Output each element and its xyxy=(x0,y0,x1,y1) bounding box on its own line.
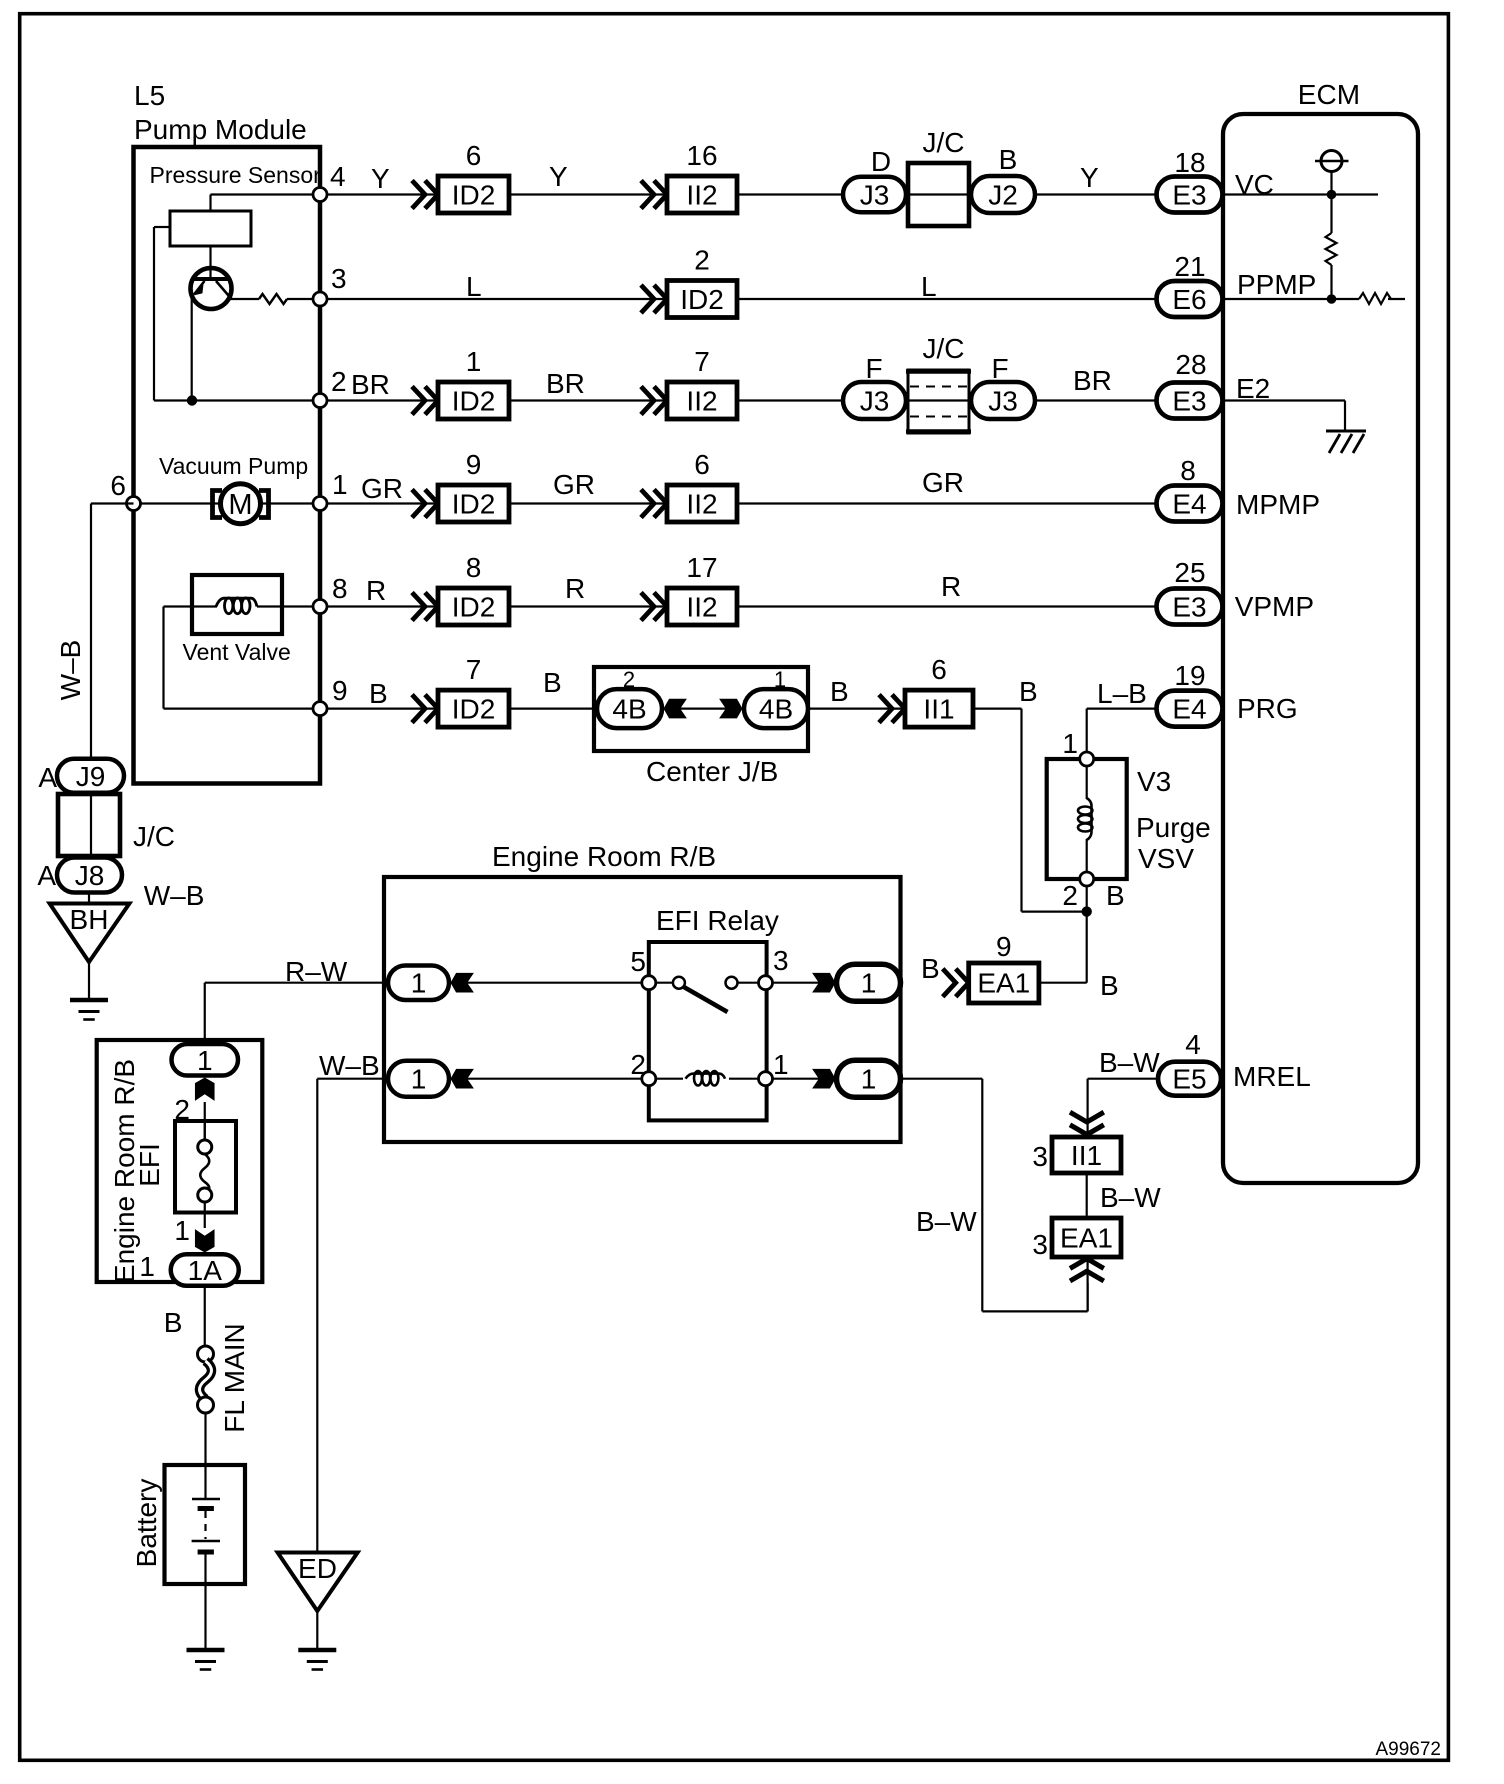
wire: junction down to EA1 output xyxy=(1086,912,1088,983)
svg-text:D: D xyxy=(871,146,891,177)
svg-text:MPMP: MPMP xyxy=(1236,489,1320,520)
svg-text:B–W: B–W xyxy=(916,1206,977,1237)
wire: pin6 W-B to J9 xyxy=(91,502,134,504)
ECM connector E5 pin 4 xyxy=(1158,1062,1221,1096)
connector II2 pin16 xyxy=(641,181,654,209)
svg-text:E2: E2 xyxy=(1236,373,1270,404)
svg-text:8: 8 xyxy=(332,573,348,604)
wire: pin8 R to ECM VPMP xyxy=(320,605,1157,607)
Center J/B box xyxy=(594,667,808,751)
svg-text:1A: 1A xyxy=(188,1255,223,1286)
EFI fuse xyxy=(175,1121,236,1213)
svg-text:Pressure Sensor: Pressure Sensor xyxy=(150,162,322,188)
svg-text:J2: J2 xyxy=(988,180,1018,211)
svg-text:B: B xyxy=(1100,970,1119,1001)
wire: pin3 L to ECM PPMP xyxy=(320,298,1157,300)
svg-text:1: 1 xyxy=(411,968,427,999)
arrow right (into 4B) xyxy=(719,699,742,719)
arrow down xyxy=(195,1229,215,1252)
purge VSV V3 box xyxy=(1047,759,1127,879)
svg-text:L: L xyxy=(466,271,482,302)
wire: pin2 BR to ECM E2 xyxy=(320,399,1157,401)
connector ID2 pin6 xyxy=(412,181,425,209)
internal wire E2 to ground xyxy=(1223,399,1345,401)
svg-text:ID2: ID2 xyxy=(452,694,496,725)
connector II2 pin6 xyxy=(641,490,654,518)
node: pump module pin 6 xyxy=(127,497,141,511)
svg-text:M: M xyxy=(228,489,252,521)
connector 1 (relay bottom-right) xyxy=(837,1060,901,1097)
node: VSV pin 1 xyxy=(1080,752,1094,766)
svg-text:R: R xyxy=(366,575,386,606)
wire: R-W row through relay xyxy=(384,982,679,984)
svg-text:6: 6 xyxy=(694,449,710,480)
svg-text:B: B xyxy=(1106,880,1125,911)
svg-text:L: L xyxy=(921,271,937,302)
svg-text:8: 8 xyxy=(466,552,482,583)
svg-text:Engine Room R/B: Engine Room R/B xyxy=(492,841,716,872)
wire xyxy=(204,1102,206,1140)
ground BH triangle xyxy=(88,892,90,904)
arrow left (into 4B) xyxy=(664,699,687,719)
connector J8 pin A xyxy=(57,858,122,893)
svg-text:II2: II2 xyxy=(686,386,717,417)
svg-text:GR: GR xyxy=(553,469,595,500)
svg-text:4B: 4B xyxy=(759,694,793,725)
svg-text:ID2: ID2 xyxy=(452,180,496,211)
svg-text:E3: E3 xyxy=(1172,180,1206,211)
svg-text:28: 28 xyxy=(1175,349,1206,380)
svg-text:2: 2 xyxy=(331,366,347,397)
connector J3 pin F (right) xyxy=(971,382,1035,419)
junction: emitter to pin2 wire xyxy=(187,395,197,405)
shield chevrons up xyxy=(1086,1257,1088,1311)
svg-text:ID2: ID2 xyxy=(452,592,496,623)
fusible link FL MAIN xyxy=(198,1346,214,1362)
svg-text:J3: J3 xyxy=(860,180,890,211)
pump module L5 box xyxy=(134,147,321,784)
svg-text:BR: BR xyxy=(546,368,585,399)
svg-text:1: 1 xyxy=(774,667,786,692)
ECM connector E4 pin 19 xyxy=(1157,691,1223,727)
ground symbol (ECM internal 777) xyxy=(1326,430,1366,433)
node: relay pin 1 xyxy=(759,1072,773,1086)
engine room R/B box (relay) xyxy=(384,877,901,1142)
wire xyxy=(316,1611,318,1648)
svg-text:B–W: B–W xyxy=(1100,1182,1161,1213)
connector 1 (top) xyxy=(172,1044,239,1076)
svg-text:L–B: L–B xyxy=(1097,678,1147,709)
svg-text:ECM: ECM xyxy=(1298,79,1360,110)
svg-text:4: 4 xyxy=(330,161,346,192)
svg-text:ID2: ID2 xyxy=(452,386,496,417)
vent valve xyxy=(164,605,218,607)
svg-text:B–W: B–W xyxy=(1099,1047,1160,1078)
node: pin 2 xyxy=(313,394,327,408)
svg-text:4B: 4B xyxy=(612,694,646,725)
svg-text:25: 25 xyxy=(1174,557,1205,588)
arrow right xyxy=(812,1069,835,1089)
connector 1 (relay top-right) xyxy=(837,964,901,1001)
svg-text:2: 2 xyxy=(1062,880,1078,911)
svg-text:2: 2 xyxy=(630,1049,646,1080)
wire: B-W relay pin1 to EA1 xyxy=(901,1078,983,1080)
svg-text:EA1: EA1 xyxy=(977,968,1030,999)
wire: L-B from purge VSV to E4 xyxy=(1087,707,1157,709)
svg-text:16: 16 xyxy=(686,140,717,171)
connector 1 (relay bottom-left) xyxy=(388,1061,449,1097)
connector EA1 pin9 xyxy=(943,969,956,997)
svg-text:EFI: EFI xyxy=(134,1143,165,1187)
arrow right xyxy=(812,973,835,993)
svg-text:1: 1 xyxy=(411,1064,427,1095)
svg-text:B: B xyxy=(1019,676,1038,707)
svg-text:J3: J3 xyxy=(988,386,1018,417)
connector ID2 pin1 xyxy=(412,387,425,415)
svg-text:PRG: PRG xyxy=(1237,693,1298,724)
connector 4B pin2 xyxy=(597,689,662,728)
wire label B-W xyxy=(1086,1173,1088,1218)
engine room R/B box (EFI fuse) xyxy=(97,1040,263,1282)
svg-text:J/C: J/C xyxy=(923,333,965,364)
svg-text:J9: J9 xyxy=(76,761,106,792)
svg-text:EFI Relay: EFI Relay xyxy=(656,905,779,936)
arrow left xyxy=(451,973,474,993)
svg-text:VSV: VSV xyxy=(1138,843,1194,874)
internal wire PPMP xyxy=(1223,298,1359,300)
svg-text:1: 1 xyxy=(773,1049,789,1080)
svg-text:J/C: J/C xyxy=(923,127,965,158)
ground symbol (battery) xyxy=(187,1648,225,1653)
svg-text:B: B xyxy=(164,1307,183,1338)
svg-text:J/C: J/C xyxy=(133,821,175,852)
svg-text:FL MAIN: FL MAIN xyxy=(219,1323,250,1432)
svg-text:EA1: EA1 xyxy=(1060,1223,1113,1254)
connector ID2 pin7 xyxy=(412,695,425,723)
svg-text:B: B xyxy=(369,678,388,709)
svg-text:V3: V3 xyxy=(1137,766,1171,797)
node: VSV pin 2 xyxy=(1080,872,1094,886)
svg-text:18: 18 xyxy=(1174,147,1205,178)
connector J9 pin A xyxy=(57,759,124,793)
connector J3 pin F (left) xyxy=(843,382,906,419)
ECM connector E3 pin 28 xyxy=(1157,383,1223,419)
ECM connector E3 pin 18 xyxy=(1157,177,1223,213)
svg-text:19: 19 xyxy=(1174,660,1205,691)
internal wire VC xyxy=(1223,193,1378,195)
relay coil xyxy=(683,1071,729,1087)
svg-text:6: 6 xyxy=(931,654,947,685)
svg-text:F: F xyxy=(865,353,882,384)
wire: EA1 to B junction xyxy=(1039,982,1087,984)
node: relay pin 3 xyxy=(759,976,773,990)
wire: sensor left to pin2 xyxy=(154,226,170,228)
svg-text:4: 4 xyxy=(1185,1029,1201,1060)
arrow left xyxy=(451,1069,474,1089)
svg-text:A99672: A99672 xyxy=(1375,1739,1441,1760)
shield chevrons down xyxy=(1070,1112,1104,1134)
svg-text:E6: E6 xyxy=(1172,284,1206,315)
svg-text:Vent Valve: Vent Valve xyxy=(183,639,291,665)
junction xyxy=(1327,294,1337,304)
svg-text:ED: ED xyxy=(298,1553,337,1584)
node: pin 3 xyxy=(313,292,327,306)
VSV coil xyxy=(1086,766,1088,799)
svg-text:GR: GR xyxy=(361,473,403,504)
connector ID2 pin2 xyxy=(641,285,654,313)
svg-text:Purge: Purge xyxy=(1136,812,1211,843)
svg-text:Y: Y xyxy=(371,163,390,194)
svg-text:E3: E3 xyxy=(1172,592,1206,623)
svg-text:3: 3 xyxy=(331,263,347,294)
power symbol xyxy=(1315,160,1349,163)
connector ID2 pin9 xyxy=(412,490,425,518)
svg-text:BR: BR xyxy=(351,369,390,400)
svg-text:E4: E4 xyxy=(1172,489,1206,520)
wire: up to MREL row xyxy=(1086,1079,1088,1137)
svg-text:II2: II2 xyxy=(686,592,717,623)
wire: pin4 Y to ECM VC xyxy=(320,193,1157,195)
svg-text:1: 1 xyxy=(139,1251,155,1282)
svg-text:3: 3 xyxy=(1032,1229,1048,1260)
internal resistor (horizontal) xyxy=(1359,293,1391,304)
svg-text:Battery: Battery xyxy=(131,1479,162,1568)
node: pin 1 xyxy=(313,497,327,511)
svg-text:Vacuum Pump: Vacuum Pump xyxy=(159,453,308,479)
svg-text:II1: II1 xyxy=(923,694,954,725)
wire: 1A to fusible link xyxy=(204,1286,206,1346)
wire: II1 B down to junction xyxy=(973,707,1022,709)
connector II2 pin7 xyxy=(641,387,654,415)
svg-text:21: 21 xyxy=(1174,251,1205,282)
svg-text:3: 3 xyxy=(1032,1141,1048,1172)
svg-text:R: R xyxy=(565,573,585,604)
internal resistor (vertical) xyxy=(1330,195,1332,234)
node: relay pin 2 xyxy=(642,1072,656,1086)
svg-text:II1: II1 xyxy=(1071,1140,1102,1171)
junction connector J/C xyxy=(908,163,969,226)
connector J3 pin D xyxy=(843,177,906,213)
ground symbol (ED) xyxy=(298,1648,336,1653)
svg-text:E5: E5 xyxy=(1172,1064,1206,1095)
svg-text:5: 5 xyxy=(630,946,646,977)
wire: VSV pin2 down xyxy=(1086,886,1088,912)
svg-text:9: 9 xyxy=(466,449,482,480)
svg-text:6: 6 xyxy=(110,470,126,501)
wire: pin1 GR to ECM MPMP xyxy=(134,502,1158,504)
svg-text:6: 6 xyxy=(466,140,482,171)
ECM connector E6 pin 21 xyxy=(1157,281,1223,317)
connector II1 pin6 xyxy=(879,695,892,723)
node: pin 4 xyxy=(313,188,327,202)
wire xyxy=(88,962,90,1000)
svg-text:7: 7 xyxy=(694,346,710,377)
svg-text:1: 1 xyxy=(861,1064,877,1095)
connector J2 pin B xyxy=(971,176,1035,213)
svg-text:Center J/B: Center J/B xyxy=(646,756,778,787)
wire: W-B relay to ED ground xyxy=(316,1079,318,1551)
svg-text:II2: II2 xyxy=(686,180,717,211)
svg-text:J3: J3 xyxy=(860,386,890,417)
svg-text:BR: BR xyxy=(1073,365,1112,396)
svg-text:R: R xyxy=(941,571,961,602)
svg-text:1: 1 xyxy=(332,469,348,500)
svg-text:L5: L5 xyxy=(134,80,165,111)
svg-text:1: 1 xyxy=(861,968,877,999)
svg-text:17: 17 xyxy=(686,552,717,583)
svg-text:ID2: ID2 xyxy=(680,284,724,315)
svg-text:7: 7 xyxy=(466,654,482,685)
svg-text:F: F xyxy=(991,353,1008,384)
junction: B net xyxy=(1082,906,1092,916)
svg-text:3: 3 xyxy=(773,945,789,976)
ECM box xyxy=(1223,114,1418,1183)
svg-text:B: B xyxy=(830,676,849,707)
svg-text:GR: GR xyxy=(922,467,964,498)
svg-text:ID2: ID2 xyxy=(452,489,496,520)
svg-text:II2: II2 xyxy=(686,489,717,520)
svg-text:Y: Y xyxy=(549,161,568,192)
EFI relay box xyxy=(649,942,767,1120)
connector II1 pin3 xyxy=(1052,1137,1121,1173)
svg-text:1: 1 xyxy=(197,1045,213,1076)
resistor (sensor output) xyxy=(259,294,287,304)
svg-text:1: 1 xyxy=(466,346,482,377)
svg-text:B: B xyxy=(543,667,562,698)
svg-text:PPMP: PPMP xyxy=(1237,269,1316,300)
transistor (pressure sensor element) xyxy=(209,246,211,277)
svg-text:E3: E3 xyxy=(1172,386,1206,417)
svg-text:2: 2 xyxy=(623,667,635,692)
svg-text:MREL: MREL xyxy=(1233,1061,1311,1092)
arrow up xyxy=(195,1078,215,1101)
svg-text:W–B: W–B xyxy=(144,880,205,911)
connector EA1 pin3 xyxy=(1052,1218,1121,1257)
wire: FL MAIN to battery xyxy=(204,1413,206,1465)
ECM connector E3 pin 25 xyxy=(1157,589,1223,625)
svg-text:9: 9 xyxy=(996,931,1012,962)
ground ED triangle xyxy=(278,1553,358,1612)
node: pin 8 xyxy=(313,600,327,614)
svg-text:1: 1 xyxy=(174,1215,190,1246)
svg-text:8: 8 xyxy=(1180,455,1196,486)
svg-text:1: 1 xyxy=(1062,728,1078,759)
wire: pin9 B to II1 xyxy=(320,707,973,709)
svg-text:Y: Y xyxy=(1080,162,1099,193)
node: pin 9 xyxy=(313,702,327,716)
connector II2 pin17 xyxy=(641,593,654,621)
svg-text:A: A xyxy=(37,860,56,891)
svg-text:Pump Module: Pump Module xyxy=(134,114,307,145)
junction xyxy=(1327,190,1337,200)
svg-text:9: 9 xyxy=(332,675,348,706)
svg-text:2: 2 xyxy=(694,245,710,276)
junction connector J/C (dashed) xyxy=(908,370,969,433)
svg-text:J8: J8 xyxy=(75,860,105,891)
svg-text:A: A xyxy=(38,762,57,793)
ECM connector E4 pin 8 xyxy=(1157,486,1223,522)
svg-text:W–B: W–B xyxy=(55,640,86,701)
wire: R-W from EFI fuse to relay xyxy=(205,982,388,984)
svg-text:B: B xyxy=(999,144,1018,175)
svg-text:W–B: W–B xyxy=(319,1050,380,1081)
connector ID2 pin8 xyxy=(412,593,425,621)
svg-text:B: B xyxy=(921,953,940,984)
connector 4B pin1 xyxy=(744,689,808,728)
node: relay pin 5 xyxy=(642,976,656,990)
connector 1 (relay top-left) xyxy=(388,965,449,1000)
svg-text:E4: E4 xyxy=(1172,694,1206,725)
svg-text:VPMP: VPMP xyxy=(1235,591,1314,622)
battery xyxy=(165,1465,246,1584)
relay switch xyxy=(683,987,728,1013)
junction connector J/C xyxy=(58,794,120,856)
svg-text:BH: BH xyxy=(70,904,109,935)
ground symbol (BH) xyxy=(70,998,108,1003)
wire: W-B row through relay xyxy=(317,1078,900,1080)
